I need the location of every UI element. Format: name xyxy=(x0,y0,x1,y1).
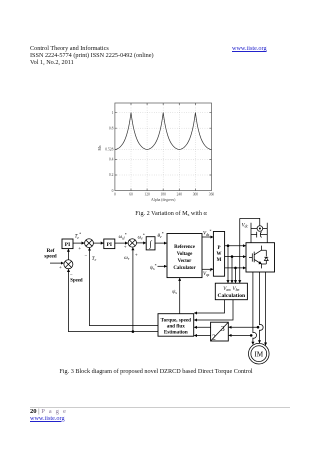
svg-text:0: 0 xyxy=(114,193,116,197)
svg-text:speed: speed xyxy=(44,253,57,259)
wire Vbn output to estimator xyxy=(194,300,233,320)
svg-text:−: − xyxy=(85,254,88,259)
wire flux estimate psi_s up to RVVC xyxy=(172,278,179,314)
reference voltage vector calculator block xyxy=(167,234,202,278)
svg-text:1: 1 xyxy=(112,111,114,115)
x axis tick labels and Alpha (degrees) label xyxy=(114,193,214,202)
footer xyxy=(30,407,290,408)
svg-text:Ms: Ms xyxy=(98,145,102,150)
svg-text:3: 3 xyxy=(221,324,225,333)
wire integrator to RVVC, node theta_e* xyxy=(155,232,167,243)
svg-text:ωsl*: ωsl* xyxy=(119,233,127,240)
svg-text:PI: PI xyxy=(107,242,112,248)
PWM modulator block xyxy=(213,232,224,277)
wire PI2 to summer S3, node wsl* xyxy=(115,233,128,251)
svg-text:Vqs*: Vqs* xyxy=(203,270,211,277)
fig3 caption xyxy=(0,368,312,375)
svg-text:Alpha (degrees): Alpha (degrees) xyxy=(151,198,176,202)
svg-text:Vds*: Vds* xyxy=(203,230,211,237)
svg-text:ψs: ψs xyxy=(172,290,177,295)
svg-text:Vector: Vector xyxy=(178,259,192,264)
wire inverter phase c down to motor xyxy=(265,272,267,345)
wire PI1 to summer S2, node Te* xyxy=(73,233,84,252)
svg-text:2: 2 xyxy=(212,333,216,342)
wire Van output to estimator xyxy=(194,300,224,313)
wire PWM gate signal c to inverter xyxy=(225,267,246,269)
wire torque feedback Te to summer S2 xyxy=(85,248,159,326)
svg-text:Reference: Reference xyxy=(174,245,196,250)
svg-text:+: + xyxy=(124,246,127,251)
wire S2 to PI2 xyxy=(93,242,103,244)
PI controller PI1 (speed) xyxy=(62,239,73,249)
svg-text:Van, Vbn: Van, Vbn xyxy=(223,287,239,292)
wire rotor speed wr to summer S3 xyxy=(124,248,138,332)
svg-text:120: 120 xyxy=(144,193,150,197)
svg-text:300: 300 xyxy=(193,193,199,197)
wire RVVC to PWM, node Vds* xyxy=(202,230,213,237)
wire Vdc sense down to calculation block xyxy=(240,218,260,283)
y axis tick labels and Ms label xyxy=(98,111,114,193)
svg-text:180: 180 xyxy=(161,193,167,197)
wire S3 to integrator, node we* xyxy=(137,233,146,242)
wire 3/2 alpha output to estimator xyxy=(194,326,210,328)
wire 3/2 beta output to estimator xyxy=(194,335,210,337)
svg-text:P: P xyxy=(217,246,220,251)
junction phase tap a xyxy=(257,326,260,329)
wire S1 output up into PI1 xyxy=(67,249,69,260)
node Ref speed input label xyxy=(44,248,57,260)
freewheel diode inside inverter xyxy=(262,250,269,264)
summing junction S2 (torque error) xyxy=(85,239,94,248)
svg-text:Te*: Te* xyxy=(75,233,81,240)
wire phase b tap to 3/2 xyxy=(229,334,251,336)
svg-text:+: + xyxy=(78,247,81,252)
svg-text:θe*: θe* xyxy=(158,232,164,239)
wire PWM gate signal b to inverter xyxy=(225,256,246,258)
svg-text:W: W xyxy=(217,252,222,257)
svg-text:IM: IM xyxy=(255,351,264,359)
wire phase a tap to 3/2 xyxy=(229,326,258,328)
svg-text:M: M xyxy=(217,258,222,263)
junction on gate signal c xyxy=(234,267,237,270)
summing junction S3 (slip + rotor speed) xyxy=(128,239,136,247)
svg-text:Te: Te xyxy=(92,257,97,262)
node Vdc label xyxy=(242,223,249,228)
svg-text:0.2: 0.2 xyxy=(109,173,114,177)
svg-text:ωr: ωr xyxy=(124,256,130,261)
svg-text:0.4: 0.4 xyxy=(109,158,114,162)
wire inverter phase a down to motor xyxy=(253,272,257,345)
torque speed flux estimator block xyxy=(158,314,194,337)
gridlines xyxy=(115,103,212,191)
svg-text:360: 360 xyxy=(209,193,215,197)
wire ref speed into summer S1 xyxy=(50,263,64,271)
wire inverter phase b down to motor xyxy=(260,272,264,343)
wire gate b down to calculation block xyxy=(231,257,233,283)
dc link positive rail xyxy=(251,223,257,243)
svg-text:Speed: Speed xyxy=(70,278,83,283)
wire gate c down to calculation block xyxy=(235,268,237,283)
junction on gate signal a xyxy=(227,244,230,247)
junction speed wire xyxy=(132,330,135,333)
svg-text:0.8: 0.8 xyxy=(109,126,114,130)
svg-text:Vdc: Vdc xyxy=(242,223,249,228)
svg-text:Calculation: Calculation xyxy=(217,293,246,299)
junction phase tap b xyxy=(250,334,253,337)
svg-text:Estimation: Estimation xyxy=(164,329,188,335)
3 phase to 2 phase transformation block xyxy=(211,322,229,341)
Ms curve xyxy=(115,113,212,150)
wire gate a down to calculation block xyxy=(227,246,229,283)
junction on gate signal b xyxy=(231,255,234,258)
svg-text:240: 240 xyxy=(177,193,183,197)
svg-text:+: + xyxy=(59,266,62,271)
CHART xyxy=(98,103,214,202)
wire RVVC to PWM, node Vqs* xyxy=(202,269,213,277)
voltage sensor on dc link xyxy=(257,226,263,232)
svg-text:ψs*: ψs* xyxy=(150,264,157,271)
svg-text:0: 0 xyxy=(112,189,114,193)
axes frame with ticks xyxy=(115,103,212,191)
dc link negative rail xyxy=(263,223,268,243)
inverter block xyxy=(246,243,275,272)
DIAGRAM xyxy=(44,218,274,364)
wire speed feedback to summer S1 xyxy=(69,269,159,331)
induction motor IM xyxy=(248,343,269,364)
wire flux reference psi_s* into RVVC xyxy=(150,264,167,271)
fig2 caption xyxy=(0,210,320,217)
integrator block xyxy=(146,237,155,250)
Van Vbn calculation block xyxy=(215,283,247,300)
svg-text:Calculator: Calculator xyxy=(173,266,196,271)
wire PWM gate signal a to inverter xyxy=(225,245,246,247)
svg-text:ωe*: ωe* xyxy=(138,233,145,240)
IGBT switch inside inverter xyxy=(249,246,262,269)
svg-text:0.528: 0.528 xyxy=(105,148,113,152)
svg-text:PI: PI xyxy=(65,242,70,248)
svg-text:+: + xyxy=(135,254,138,259)
PI controller PI2 (torque) xyxy=(104,239,115,249)
summing junction S1 (speed error) xyxy=(64,260,73,269)
header xyxy=(30,45,230,66)
dc link capacitor xyxy=(251,232,267,238)
svg-text:Voltage: Voltage xyxy=(177,252,193,257)
svg-text:60: 60 xyxy=(129,193,133,197)
